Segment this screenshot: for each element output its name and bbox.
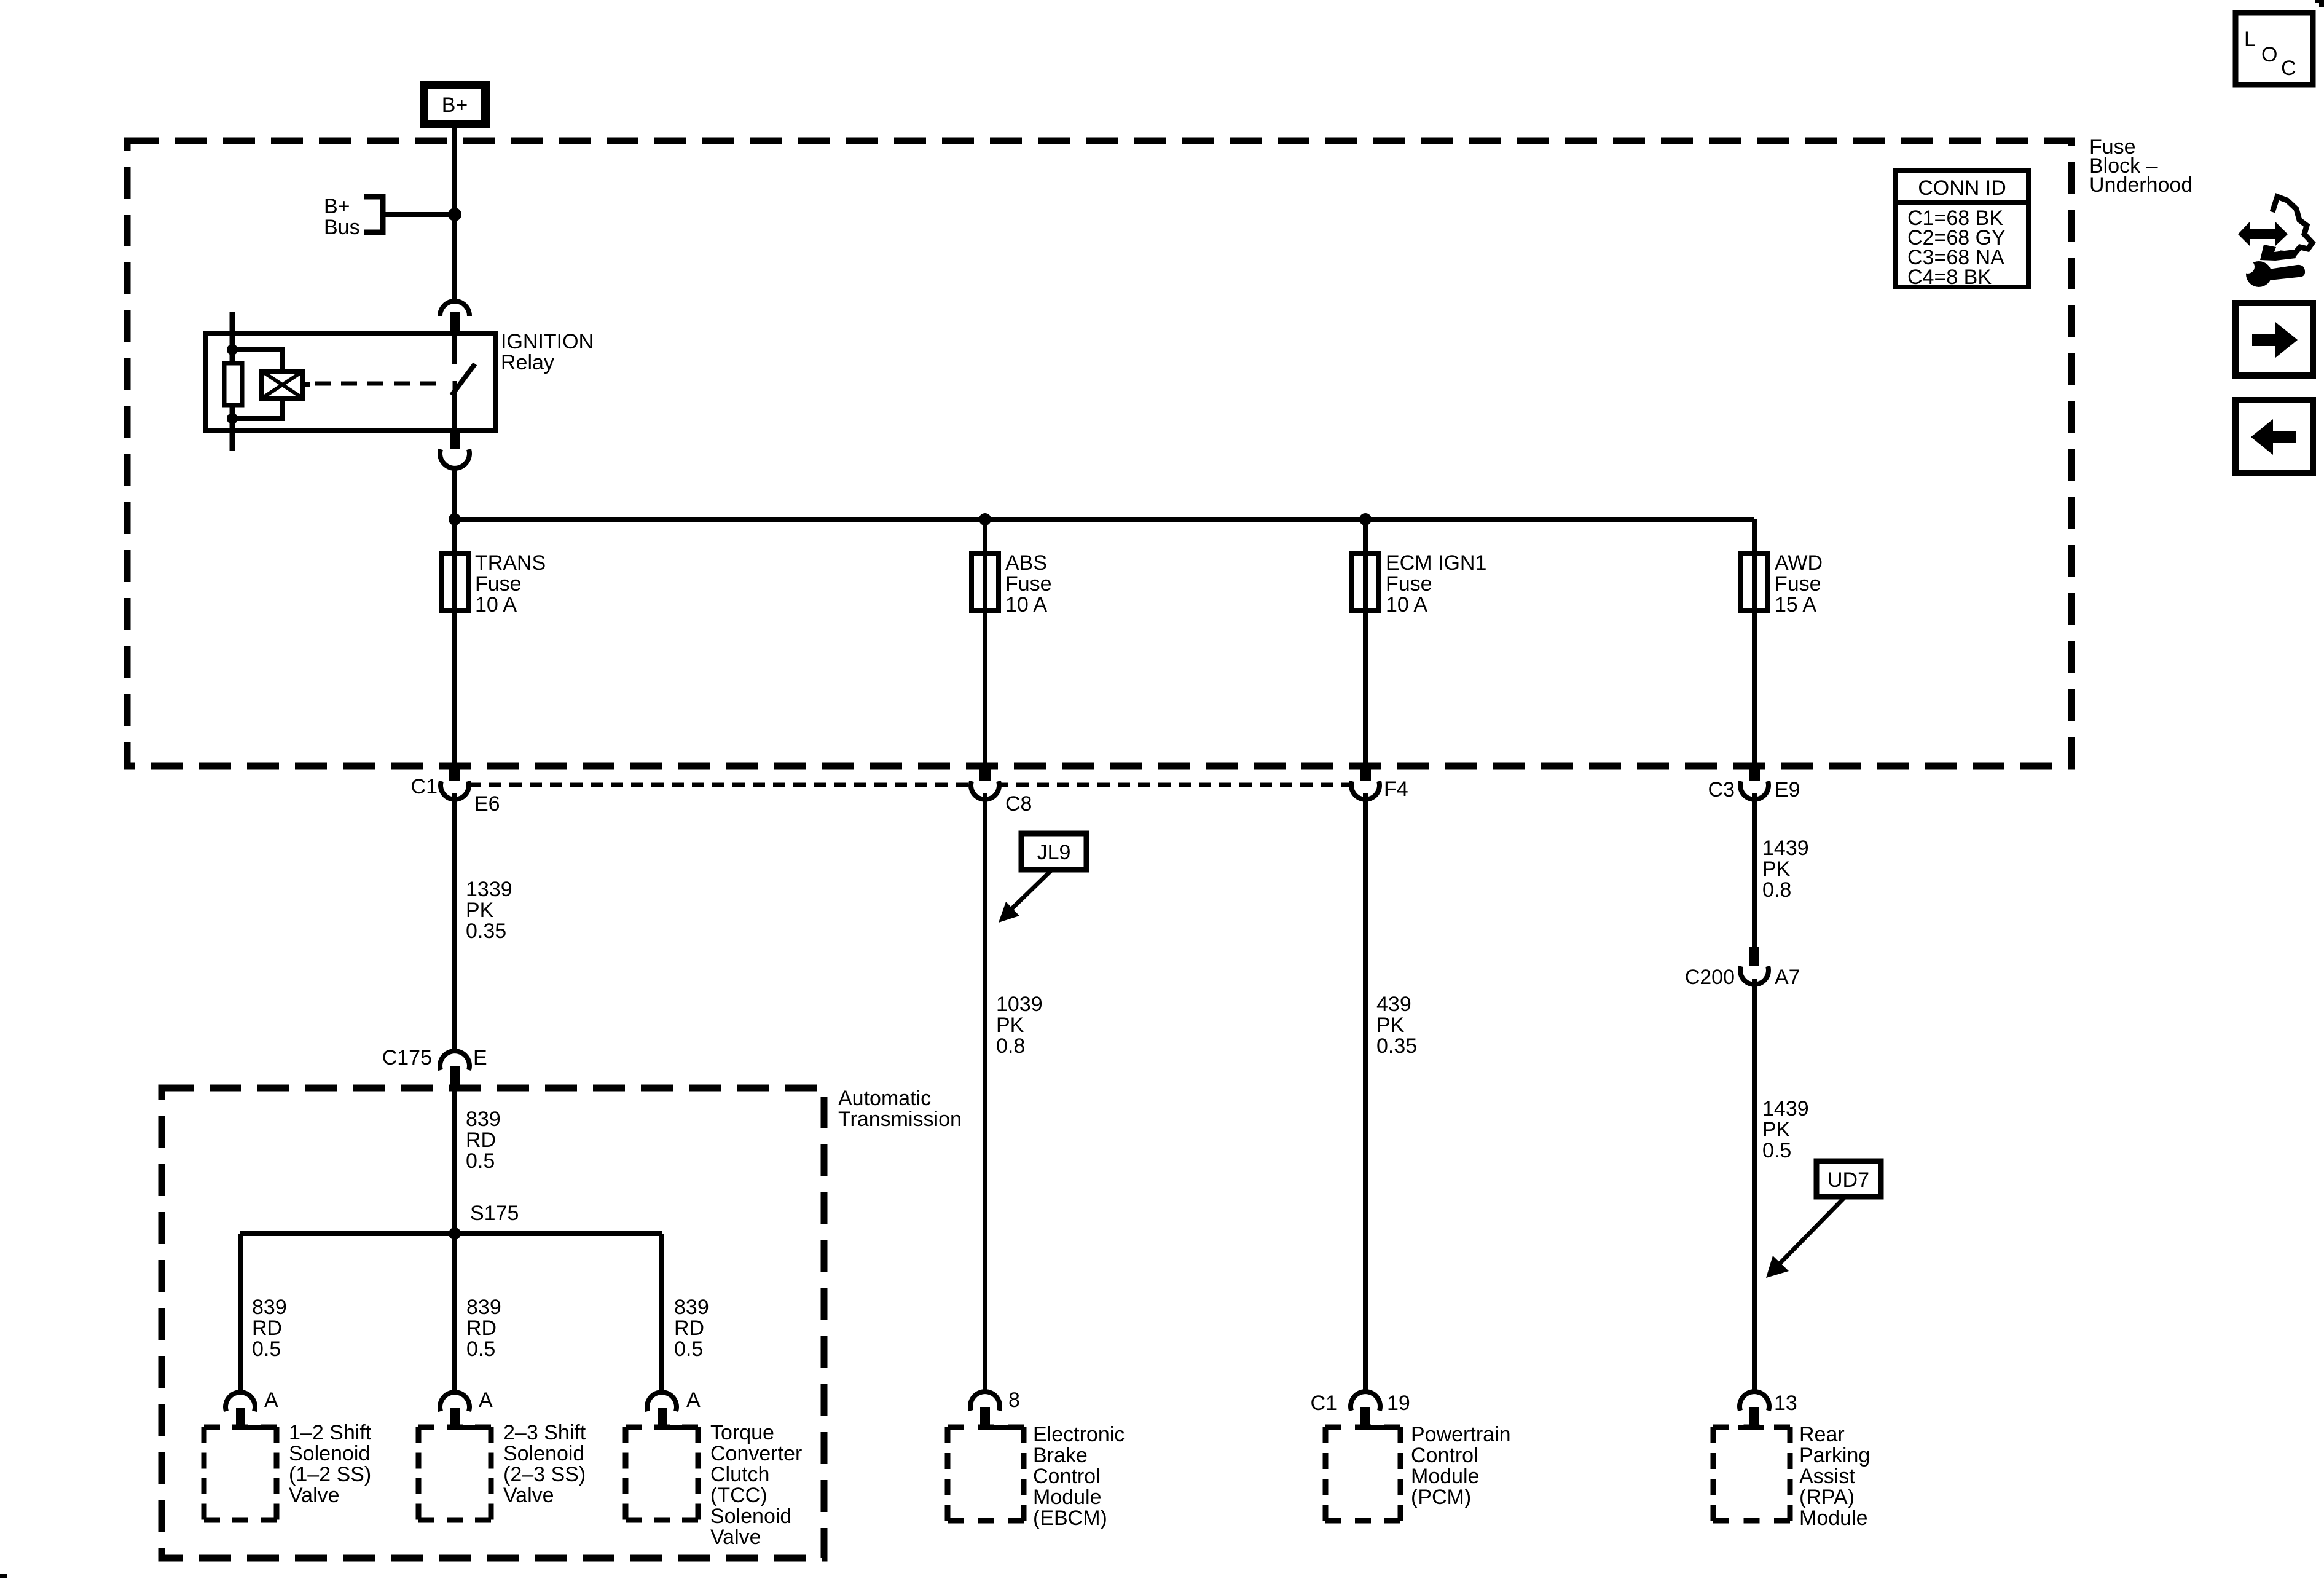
svg-text:(1–2 SS): (1–2 SS) xyxy=(289,1463,371,1486)
B+ power symbol xyxy=(420,81,490,128)
svg-text:F4: F4 xyxy=(1384,778,1408,801)
svg-text:IGNITION: IGNITION xyxy=(501,330,594,353)
wire label 1439 PK 0.5 xyxy=(1762,1097,1809,1162)
corner mark top right xyxy=(2315,0,2324,7)
fuse TRANS 10A xyxy=(441,554,468,610)
connector C8 xyxy=(971,763,999,800)
ABS fuse label xyxy=(1005,551,1052,616)
connector half-circle relay top xyxy=(440,301,469,335)
svg-text:C175: C175 xyxy=(382,1046,432,1069)
CONN ID table xyxy=(1896,170,2028,289)
svg-text:UD7: UD7 xyxy=(1827,1168,1869,1192)
svg-text:Fuse: Fuse xyxy=(1775,572,1821,596)
svg-text:(RPA): (RPA) xyxy=(1799,1486,1855,1509)
svg-text:2–3 Shift: 2–3 Shift xyxy=(503,1421,586,1444)
svg-text:RD: RD xyxy=(674,1317,704,1340)
svg-text:A: A xyxy=(686,1388,701,1412)
wire label 839 RD 0.5 branch3 xyxy=(674,1296,709,1361)
svg-text:RD: RD xyxy=(252,1317,282,1340)
svg-text:Transmission: Transmission xyxy=(838,1108,962,1131)
RPA label xyxy=(1799,1423,1870,1530)
connector EBCM pin 8 xyxy=(970,1392,1014,1430)
automatic transmission dashed box xyxy=(162,1088,824,1558)
svg-text:C1: C1 xyxy=(1311,1392,1337,1415)
svg-text:1439: 1439 xyxy=(1762,1097,1809,1120)
UD7 option box xyxy=(1816,1161,1881,1197)
svg-text:Electronic: Electronic xyxy=(1033,1423,1125,1446)
svg-text:Valve: Valve xyxy=(289,1484,340,1507)
svg-text:Bus: Bus xyxy=(324,216,360,239)
svg-text:839: 839 xyxy=(466,1296,501,1319)
node S175 xyxy=(449,1227,461,1240)
wire col3 to PCM xyxy=(1363,793,1368,1393)
svg-text:A: A xyxy=(479,1388,493,1412)
svg-text:E9: E9 xyxy=(1775,778,1800,801)
svg-text:Rear: Rear xyxy=(1799,1423,1845,1446)
svg-text:0.35: 0.35 xyxy=(466,919,506,943)
wire relay to bus xyxy=(452,467,457,522)
svg-text:C: C xyxy=(2281,57,2296,80)
svg-text:Module: Module xyxy=(1411,1465,1480,1488)
wire coil loop xyxy=(232,350,283,419)
svg-text:C8: C8 xyxy=(1005,792,1032,816)
svg-text:Module: Module xyxy=(1799,1506,1868,1530)
wire branch TCC xyxy=(659,1234,664,1393)
wire label 1339 PK 0.35 xyxy=(466,878,512,943)
fuse ABS 10A xyxy=(972,554,999,610)
svg-text:Converter: Converter xyxy=(710,1442,802,1465)
svg-text:13: 13 xyxy=(1774,1392,1797,1415)
LOC page icon xyxy=(2236,13,2313,85)
connector half-circle relay bottom xyxy=(440,430,469,468)
svg-text:CONN ID: CONN ID xyxy=(1918,176,2006,200)
svg-text:15 A: 15 A xyxy=(1775,593,1816,616)
svg-text:RD: RD xyxy=(466,1128,496,1152)
PCM dashed box xyxy=(1325,1427,1400,1521)
wire col4 to C200 xyxy=(1752,793,1757,950)
connector A TCC xyxy=(647,1392,690,1430)
connector C175 E xyxy=(440,1051,469,1089)
svg-text:839: 839 xyxy=(674,1296,709,1319)
svg-text:10 A: 10 A xyxy=(475,593,517,616)
wire label 839 RD 0.5 xyxy=(466,1108,501,1173)
fuse block underhood dashed box xyxy=(127,141,2071,766)
svg-text:(TCC): (TCC) xyxy=(710,1484,767,1507)
svg-text:Module: Module xyxy=(1033,1486,1102,1509)
connector row dashed link line xyxy=(469,783,1352,787)
2-3 shift solenoid box xyxy=(418,1427,491,1520)
resistor inside relay xyxy=(224,363,242,405)
JL9 arrow xyxy=(999,870,1052,923)
svg-text:B+: B+ xyxy=(442,93,468,117)
back arrow icon xyxy=(2236,400,2313,473)
svg-text:8: 8 xyxy=(1008,1388,1020,1412)
svg-text:19: 19 xyxy=(1387,1392,1410,1415)
svg-text:10 A: 10 A xyxy=(1005,593,1047,616)
svg-text:0.5: 0.5 xyxy=(466,1149,495,1173)
wire col2 to EBCM xyxy=(983,793,987,1393)
node B+ bus junction xyxy=(448,208,461,221)
connector F4 xyxy=(1351,763,1380,800)
forward arrow icon xyxy=(2236,303,2313,376)
AWD fuse label xyxy=(1775,551,1823,616)
svg-text:RD: RD xyxy=(466,1317,497,1340)
svg-text:JL9: JL9 xyxy=(1037,841,1071,864)
svg-text:839: 839 xyxy=(252,1296,287,1319)
svg-text:Fuse: Fuse xyxy=(475,572,522,596)
bus wire horizontal xyxy=(455,517,1754,522)
svg-text:(EBCM): (EBCM) xyxy=(1033,1506,1107,1530)
svg-text:Solenoid: Solenoid xyxy=(289,1442,370,1465)
svg-text:PK: PK xyxy=(466,899,494,922)
svg-text:Underhood: Underhood xyxy=(2089,173,2192,197)
svg-text:(PCM): (PCM) xyxy=(1411,1486,1471,1509)
svg-text:B+: B+ xyxy=(324,195,350,218)
svg-text:0.5: 0.5 xyxy=(466,1337,495,1361)
wire splice horizontal xyxy=(240,1231,662,1236)
svg-text:Solenoid: Solenoid xyxy=(710,1505,791,1528)
svg-text:1039: 1039 xyxy=(996,993,1043,1016)
svg-text:0.8: 0.8 xyxy=(996,1034,1025,1058)
connector C200 A7 xyxy=(1740,947,1769,985)
wire col3 bus to fuse block bottom xyxy=(1363,519,1368,766)
node bus col1 xyxy=(449,513,461,526)
svg-text:439: 439 xyxy=(1376,993,1411,1016)
svg-text:A: A xyxy=(264,1388,278,1412)
svg-text:Brake: Brake xyxy=(1033,1444,1088,1467)
svg-text:Assist: Assist xyxy=(1799,1465,1855,1488)
TRANS fuse label xyxy=(475,551,546,616)
connector A 2-3 shift xyxy=(440,1392,483,1430)
B+ Bus tap label xyxy=(324,195,360,239)
svg-text:Clutch: Clutch xyxy=(710,1463,769,1486)
svg-text:TRANS: TRANS xyxy=(475,551,546,575)
wire label 839 RD 0.5 branch1 xyxy=(252,1296,287,1361)
svg-text:PK: PK xyxy=(1762,1118,1791,1141)
svg-text:PK: PK xyxy=(1376,1014,1405,1037)
PCM label xyxy=(1411,1423,1511,1509)
svg-text:Valve: Valve xyxy=(710,1526,761,1549)
TCC solenoid box xyxy=(626,1427,698,1520)
wire branch 1-2 shift xyxy=(238,1234,243,1393)
2-3 Shift Solenoid label xyxy=(503,1421,586,1507)
svg-text:Control: Control xyxy=(1411,1444,1478,1467)
svg-text:1–2 Shift: 1–2 Shift xyxy=(289,1421,372,1444)
svg-text:L: L xyxy=(2244,28,2256,51)
svg-text:ECM IGN1: ECM IGN1 xyxy=(1386,551,1486,575)
diagnostics wrench icon xyxy=(2234,197,2312,287)
svg-text:PK: PK xyxy=(1762,857,1791,881)
svg-text:Fuse: Fuse xyxy=(1005,572,1052,596)
node relay coil top xyxy=(227,344,238,355)
connector PCM C1 19 xyxy=(1351,1392,1394,1430)
JL9 option box xyxy=(1021,833,1086,870)
svg-text:Powertrain: Powertrain xyxy=(1411,1423,1511,1446)
wire label 1039 PK 0.8 xyxy=(996,993,1043,1058)
svg-text:1439: 1439 xyxy=(1762,837,1809,860)
svg-text:Solenoid: Solenoid xyxy=(503,1442,584,1465)
svg-text:E6: E6 xyxy=(474,792,500,816)
connector RPA pin 13 xyxy=(1738,1392,1769,1430)
wire C200 to RPA xyxy=(1752,979,1757,1393)
svg-text:ABS: ABS xyxy=(1005,551,1047,575)
wire branch 2-3 shift xyxy=(452,1234,457,1393)
svg-text:C4=8 BK: C4=8 BK xyxy=(1907,266,1992,289)
1-2 shift solenoid box xyxy=(204,1427,277,1520)
svg-text:839: 839 xyxy=(466,1108,501,1131)
B+ Bus bracket xyxy=(364,197,383,232)
relay switch xyxy=(452,334,475,430)
svg-text:0.5: 0.5 xyxy=(1762,1139,1791,1162)
svg-text:10 A: 10 A xyxy=(1386,593,1427,616)
wire col1 bus to fuse block bottom xyxy=(452,519,457,766)
node bus col3 xyxy=(1359,513,1372,526)
svg-text:PK: PK xyxy=(996,1014,1024,1037)
corner mark bottom left xyxy=(0,1574,7,1578)
fuse ECM IGN1 10A xyxy=(1352,554,1379,610)
wire label 1439 PK 0.8 xyxy=(1762,837,1809,902)
wire C175 to S175 xyxy=(452,1089,457,1234)
svg-text:0.8: 0.8 xyxy=(1762,878,1791,902)
fuse AWD 15A xyxy=(1741,554,1768,610)
svg-text:Valve: Valve xyxy=(503,1484,554,1507)
IGNITION Relay label xyxy=(501,330,594,374)
connector A 1-2 shift xyxy=(226,1392,269,1430)
connector C1 E6 xyxy=(441,763,469,800)
svg-text:S175: S175 xyxy=(470,1202,519,1225)
svg-text:A7: A7 xyxy=(1775,966,1800,989)
TCC Solenoid label xyxy=(710,1421,802,1549)
svg-text:0.5: 0.5 xyxy=(252,1337,281,1361)
1-2 Shift Solenoid label xyxy=(289,1421,372,1507)
relay coil pin wire left xyxy=(230,312,235,451)
svg-text:C200: C200 xyxy=(1685,966,1735,989)
EBCM label xyxy=(1033,1423,1125,1530)
svg-text:0.35: 0.35 xyxy=(1376,1034,1417,1058)
UD7 arrow xyxy=(1766,1197,1845,1278)
svg-text:C1: C1 xyxy=(411,775,438,798)
node bus col2 xyxy=(979,513,991,526)
svg-text:Control: Control xyxy=(1033,1465,1101,1488)
wire col4 bus to fuse block bottom xyxy=(1752,519,1757,766)
svg-text:E: E xyxy=(473,1046,487,1069)
RPA dashed box xyxy=(1713,1427,1790,1521)
svg-text:1339: 1339 xyxy=(466,878,512,901)
wire col2 bus to fuse block bottom xyxy=(983,519,987,766)
svg-text:0.5: 0.5 xyxy=(674,1337,703,1361)
Fuse Block Underhood label xyxy=(2089,135,2192,197)
svg-text:Relay: Relay xyxy=(501,351,554,374)
svg-text:(2–3 SS): (2–3 SS) xyxy=(503,1463,586,1486)
svg-text:Parking: Parking xyxy=(1799,1444,1870,1467)
connector C3 E9 xyxy=(1740,763,1769,800)
relay coil box xyxy=(262,371,310,398)
Automatic Transmission label xyxy=(838,1087,962,1131)
wire label 439 PK 0.35 xyxy=(1376,993,1417,1058)
ignition relay box xyxy=(205,334,495,430)
svg-text:O: O xyxy=(2261,43,2277,66)
svg-text:Fuse: Fuse xyxy=(1386,572,1432,596)
svg-text:Automatic: Automatic xyxy=(838,1087,931,1110)
svg-text:C3: C3 xyxy=(1708,778,1735,801)
svg-text:Torque: Torque xyxy=(710,1421,774,1444)
wire B+ Bus to main wire xyxy=(385,212,455,217)
wire col1 to C175 xyxy=(452,793,457,1052)
relay actuation dashed line xyxy=(315,382,440,386)
svg-text:AWD: AWD xyxy=(1775,551,1823,575)
wire B+ to ignition relay xyxy=(452,128,457,299)
EBCM dashed box xyxy=(948,1427,1024,1521)
ECM IGN1 fuse label xyxy=(1386,551,1486,616)
wire label 839 RD 0.5 branch2 xyxy=(466,1296,501,1361)
node relay coil bottom xyxy=(227,413,238,424)
